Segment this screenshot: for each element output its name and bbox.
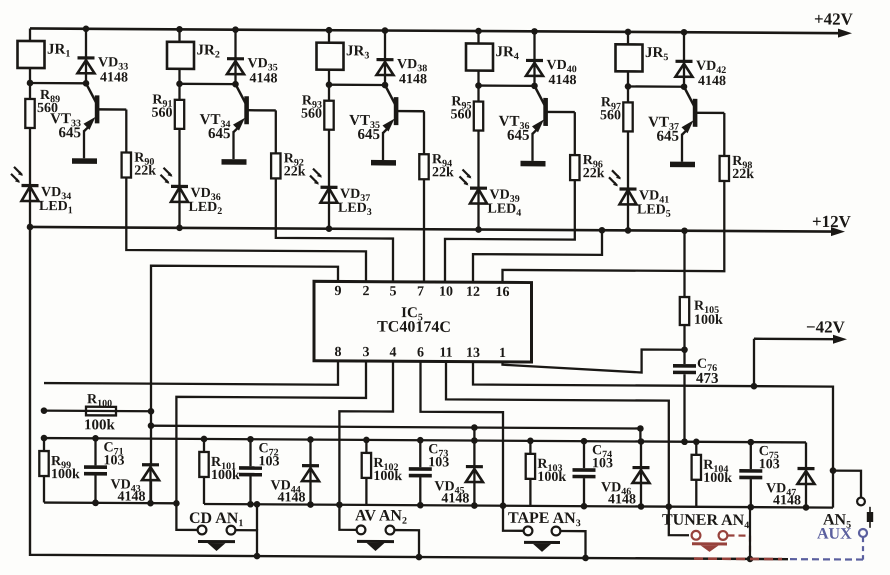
resistor R92 22k — [271, 110, 280, 178]
switch AN4 TUNER (red) — [692, 507, 754, 562]
svg-text:13: 13 — [466, 346, 480, 361]
svg-text:−42V: −42V — [806, 317, 846, 336]
transistor VT37 — [682, 87, 725, 162]
wire cell1 bottom — [44, 499, 176, 506]
node R101 label — [211, 455, 240, 483]
svg-text:4148: 4148 — [100, 70, 128, 85]
resistor R97 560 — [623, 86, 632, 189]
ground stage 5 — [670, 162, 695, 168]
node JR2 label — [197, 42, 220, 60]
wire base R96 to IC pin 10 — [445, 179, 575, 282]
node VD34 LED1 label — [39, 185, 73, 216]
svg-text:1: 1 — [499, 346, 506, 361]
resistor R90 22k — [122, 110, 131, 178]
node R92 label — [284, 151, 306, 179]
svg-text:4148: 4148 — [399, 72, 427, 87]
wire IC pin 6 to switch AN3 — [421, 361, 524, 530]
svg-text:22k: 22k — [134, 164, 156, 179]
node -42V label — [806, 317, 846, 336]
relay JR4 — [466, 28, 493, 86]
svg-text:+12V: +12V — [812, 212, 852, 231]
LED VD36 LED2 — [161, 168, 189, 231]
svg-text:4: 4 — [390, 345, 397, 360]
wire IC pin 8 to cell rail — [44, 359, 338, 385]
wire red dashes on bottom rail — [694, 557, 782, 560]
wire IC pin 13 to -42V and AN5 — [473, 362, 836, 508]
wire +42V rail — [30, 24, 852, 38]
node C72 label — [259, 441, 280, 469]
svg-text:4148: 4148 — [549, 73, 577, 88]
transistor VT33 — [84, 83, 127, 158]
resistor R89 560 — [25, 83, 34, 186]
node JR5 label — [645, 45, 668, 63]
op-amp U1 IC5 TC40174C — [314, 281, 532, 362]
capacitor C71 103 — [84, 438, 107, 506]
node R100 label — [84, 392, 115, 433]
svg-text:100k: 100k — [51, 467, 80, 482]
node TUNER AN4 label — [662, 512, 749, 532]
node R90 label — [134, 151, 156, 179]
svg-text:7: 7 — [417, 285, 424, 300]
resistor R96 22k — [570, 112, 579, 180]
wire stage 2 relay node — [176, 81, 239, 88]
node IC top pin numbers — [335, 284, 510, 300]
svg-text:100k: 100k — [694, 313, 723, 328]
wire base R92 to IC pin 5 — [276, 178, 393, 281]
wire -42V feed — [754, 334, 847, 386]
resistor R103 100k — [526, 441, 535, 506]
svg-text:LED3: LED3 — [338, 201, 372, 218]
node JR4 label — [496, 44, 519, 62]
diode VD33 — [78, 25, 95, 83]
node AUX label — [817, 526, 852, 543]
wire IC pin 4 to switch AN2 — [336, 361, 393, 530]
svg-text:4148: 4148 — [698, 74, 726, 89]
capacitor C76 473 — [673, 346, 696, 445]
wire stage 3 relay node — [326, 81, 389, 88]
node VD47 label — [766, 481, 801, 508]
relay JR1 — [18, 28, 45, 83]
node R104 label — [703, 458, 732, 486]
diode VD42 — [676, 29, 693, 87]
node VD35 value label — [248, 56, 278, 86]
ground stage 3 — [371, 160, 396, 166]
node C71 label — [104, 440, 125, 468]
diode VD40 — [526, 28, 543, 86]
svg-text:103: 103 — [592, 456, 613, 471]
ground stage 1 — [72, 158, 97, 164]
relay JR2 — [167, 26, 194, 84]
svg-text:560: 560 — [301, 107, 322, 122]
diode VD47 4148 — [798, 442, 815, 510]
node VD40 value label — [547, 58, 577, 88]
svg-text:103: 103 — [759, 457, 780, 472]
svg-text:TAPE AN3: TAPE AN3 — [508, 510, 581, 529]
node VD38 value label — [397, 57, 427, 87]
node C73 label — [428, 442, 449, 470]
diode VD43 4148 — [142, 463, 159, 503]
node C76 label — [696, 357, 718, 387]
svg-text:AUX: AUX — [817, 526, 852, 543]
svg-text:103: 103 — [428, 455, 449, 470]
resistor R95 560 — [474, 86, 483, 189]
resistor R102 100k — [362, 440, 371, 505]
node VT33 label — [50, 111, 81, 141]
svg-text:645: 645 — [507, 128, 529, 144]
svg-text:TUNER AN4: TUNER AN4 — [662, 512, 749, 532]
wire base R94 to IC pin 7 — [423, 179, 425, 282]
wire base R90 to IC pin 2 — [126, 178, 366, 282]
node R89 label — [37, 88, 60, 116]
wire pin9 bus horizontal — [148, 422, 644, 442]
svg-text:22k: 22k — [432, 165, 454, 180]
svg-text:5: 5 — [390, 284, 397, 299]
svg-text:4148: 4148 — [250, 71, 278, 86]
svg-text:AV AN2: AV AN2 — [355, 507, 407, 526]
node R102 label — [373, 456, 402, 484]
wire stage 1 relay node — [27, 80, 90, 87]
node JR1 label — [47, 42, 70, 60]
LED VD39 LED4 — [460, 169, 488, 232]
node IC5 label — [377, 305, 451, 336]
transistor VT36 — [532, 86, 575, 161]
diode VD44 4148 — [302, 440, 319, 508]
svg-text:100k: 100k — [703, 471, 732, 486]
svg-text:645: 645 — [358, 127, 380, 143]
svg-text:473: 473 — [696, 371, 718, 387]
svg-text:CD AN1: CD AN1 — [189, 510, 243, 529]
node VD33 value label — [98, 55, 128, 85]
svg-text:9: 9 — [335, 284, 342, 299]
svg-text:LED1: LED1 — [39, 199, 73, 216]
wire VD43 column — [150, 411, 152, 503]
wire AN5 feed branch — [833, 471, 861, 498]
node VD45 label — [434, 479, 469, 506]
node VD42 value label — [696, 59, 726, 89]
LED VD41 LED5 — [609, 170, 637, 233]
svg-text:12: 12 — [466, 285, 480, 300]
resistor R94 22k — [419, 111, 428, 179]
wire IC pin 9 to R100 node — [151, 266, 338, 413]
node C75 label — [759, 444, 780, 472]
ground stage 4 — [521, 161, 546, 167]
svg-text:LED5: LED5 — [637, 202, 671, 219]
node R91 label — [152, 93, 173, 121]
svg-text:+42V: +42V — [814, 9, 854, 28]
node VT34 label — [200, 112, 231, 142]
capacitor C73 103 — [409, 440, 432, 508]
LED VD34 LED1 — [11, 167, 39, 230]
node VD41 LED5 label — [637, 188, 671, 219]
transistor VT34 — [233, 84, 276, 159]
wire input cell top bus — [41, 435, 806, 446]
svg-text:100k: 100k — [211, 468, 240, 483]
node R94 label — [432, 152, 454, 180]
svg-text:TC40174C: TC40174C — [377, 318, 451, 335]
wire IC pin 3 to switch AN1 — [173, 360, 366, 531]
node VT35 label — [349, 113, 380, 143]
svg-text:22k: 22k — [284, 164, 306, 179]
node +42V label — [814, 9, 854, 28]
switch AN2 AV — [357, 525, 423, 560]
node R105 label — [694, 299, 723, 328]
svg-text:16: 16 — [496, 285, 510, 300]
node R99 label — [51, 454, 80, 482]
node JR3 label — [346, 43, 369, 61]
wire stage 5 relay node — [625, 83, 688, 90]
ground stage 2 — [222, 159, 247, 165]
wire base R98 to IC pin 16 — [503, 180, 725, 284]
capacitor C72 103 — [239, 439, 262, 507]
node TAPE AN3 label — [508, 510, 581, 529]
node R98 label — [732, 154, 754, 182]
svg-text:560: 560 — [152, 106, 173, 121]
resistor R100 100k — [41, 406, 155, 415]
svg-text:6: 6 — [417, 346, 424, 361]
node VD36 LED2 label — [189, 186, 223, 217]
svg-text:103: 103 — [104, 453, 125, 468]
node CD AN1 label — [189, 510, 243, 529]
node VT36 label — [499, 114, 530, 144]
svg-text:3: 3 — [363, 345, 370, 360]
diode VD35 — [227, 26, 244, 84]
wire IC pin 1 to R105/C76 node — [503, 349, 683, 373]
wire cell2-5 bottom — [204, 501, 833, 511]
diode VD46 4148 — [633, 441, 650, 509]
svg-text:645: 645 — [208, 126, 230, 142]
wire IC pin 11 to switch AN4 — [446, 361, 689, 535]
svg-text:2: 2 — [363, 284, 370, 299]
wire IC pin 12 to +12V rail — [473, 226, 605, 283]
node IC bottom pin numbers — [335, 345, 506, 361]
node +12V label — [812, 212, 852, 231]
node VT37 label — [648, 115, 679, 145]
resistor R104 100k — [692, 442, 701, 507]
node VD37 LED3 label — [338, 187, 372, 218]
switch AN5 AUX (vertical) — [790, 497, 873, 559]
resistor R98 22k — [720, 113, 729, 181]
svg-text:22k: 22k — [583, 166, 605, 181]
node VD44 label — [271, 478, 306, 505]
switch AN1 CD — [198, 504, 261, 559]
wire +12V rail — [30, 222, 845, 236]
node R95 label — [451, 94, 472, 122]
resistor R101 100k — [199, 439, 208, 504]
svg-text:22k: 22k — [732, 167, 754, 182]
svg-text:LED4: LED4 — [488, 202, 522, 219]
LED VD37 LED3 — [310, 169, 338, 232]
node R96 label — [583, 153, 605, 181]
wire stage 4 relay node — [475, 82, 538, 89]
transistor VT35 — [383, 85, 425, 160]
capacitor C75 103 — [739, 442, 762, 510]
resistor R99 100k — [39, 438, 48, 503]
svg-text:8: 8 — [335, 345, 342, 360]
svg-text:100k: 100k — [84, 417, 115, 433]
resistor R93 560 — [324, 85, 333, 188]
resistor R91 560 — [175, 84, 184, 187]
node VD43 label — [111, 477, 146, 504]
node AN5 label — [823, 512, 851, 531]
resistor R105 100k — [680, 227, 689, 349]
node AV AN2 label — [355, 507, 407, 526]
node C74 label — [592, 443, 613, 471]
node R97 label — [600, 95, 621, 123]
svg-text:11: 11 — [439, 346, 452, 361]
diode VD45 4148 — [466, 440, 483, 508]
svg-text:103: 103 — [259, 454, 280, 469]
node VD46 label — [601, 480, 636, 507]
node VD39 LED4 label — [488, 188, 522, 219]
capacitor C74 103 — [573, 441, 596, 509]
svg-text:560: 560 — [451, 107, 472, 122]
node R103 label — [537, 457, 566, 485]
svg-text:10: 10 — [439, 285, 453, 300]
relay JR5 — [616, 29, 643, 87]
svg-text:100k: 100k — [537, 470, 566, 485]
svg-text:100k: 100k — [373, 469, 402, 484]
wire left border to bottom rail — [30, 227, 788, 559]
node R93 label — [301, 94, 322, 122]
switch AN3 TAPE — [524, 526, 589, 561]
svg-text:645: 645 — [657, 129, 679, 145]
svg-text:LED2: LED2 — [189, 200, 223, 217]
svg-text:645: 645 — [59, 125, 81, 141]
svg-text:560: 560 — [600, 108, 621, 123]
relay JR3 — [317, 27, 344, 85]
diode VD38 — [377, 27, 394, 85]
